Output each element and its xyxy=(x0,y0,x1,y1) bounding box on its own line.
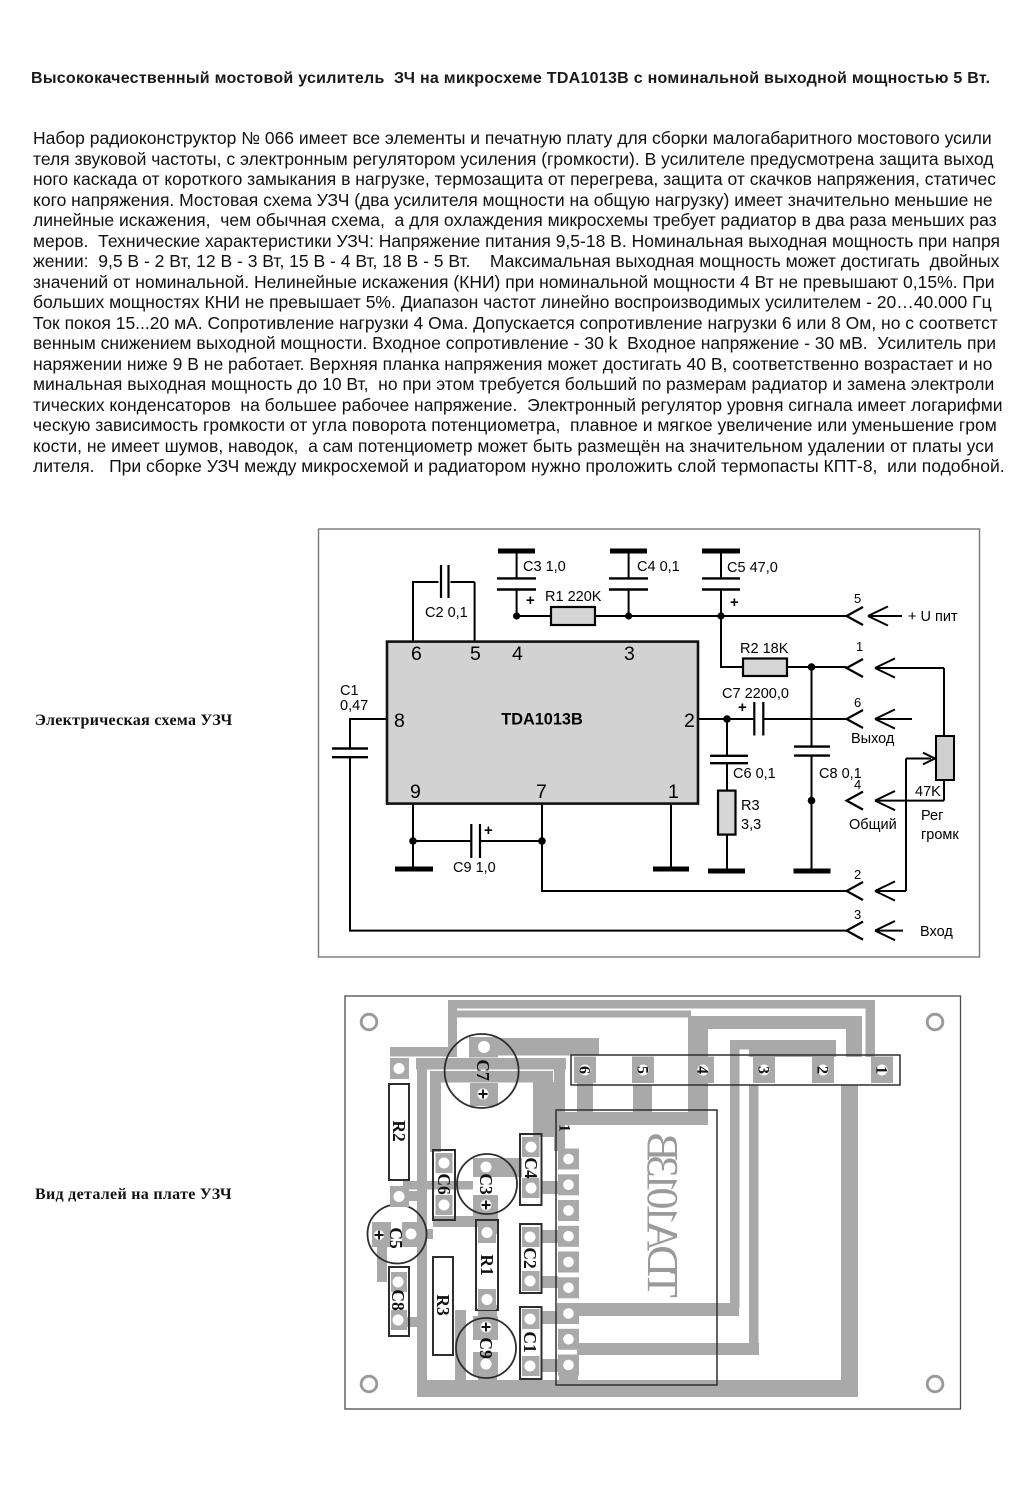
svg-text:C5: C5 xyxy=(386,1227,406,1249)
svg-text:6: 6 xyxy=(576,1066,593,1074)
svg-text:C2: C2 xyxy=(520,1247,540,1268)
svg-text:1: 1 xyxy=(556,1124,573,1132)
svg-text:R1: R1 xyxy=(477,1254,497,1275)
svg-text:C4: C4 xyxy=(521,1157,541,1179)
svg-text:C3: C3 xyxy=(476,1173,496,1195)
svg-text:TDA1013B: TDA1013B xyxy=(638,1133,687,1297)
svg-text:C6: C6 xyxy=(434,1173,454,1195)
svg-text:C1: C1 xyxy=(520,1331,540,1352)
svg-text:4: 4 xyxy=(694,1066,711,1074)
svg-text:3: 3 xyxy=(755,1066,772,1074)
svg-text:R3: R3 xyxy=(433,1294,453,1316)
svg-text:C7: C7 xyxy=(473,1059,493,1081)
svg-text:1: 1 xyxy=(873,1066,890,1074)
svg-text:C8: C8 xyxy=(388,1289,408,1311)
svg-text:R2: R2 xyxy=(389,1120,409,1141)
svg-text:5: 5 xyxy=(634,1066,651,1074)
svg-text:2: 2 xyxy=(814,1066,831,1074)
svg-text:C9: C9 xyxy=(476,1337,496,1359)
